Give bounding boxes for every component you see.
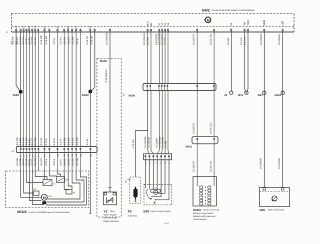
strip x1 pin at 49.4	[49, 148, 51, 153]
strip x1 pin at 23.6	[23, 148, 25, 153]
svg-text:0.75 SW: 0.75 SW	[132, 139, 135, 149]
module pin (right group) #5	[247, 29, 248, 32]
module pin (right group) #4	[244, 29, 245, 32]
wire strip x1 pin 9 into actuator	[48, 153, 50, 172]
svg-text:15R: 15R	[282, 21, 285, 26]
module pin 28 (left group)	[38, 29, 39, 32]
svg-text:0.5 VI: 0.5 VI	[60, 139, 63, 146]
module pin 30 (left group)	[49, 29, 50, 32]
module pin 38 (left group)	[94, 29, 95, 32]
actuator M16/2 dashed box	[6, 171, 89, 208]
wire x=32.3 module to connector strip	[31, 32, 33, 147]
svg-text:0.5 SW: 0.5 SW	[76, 157, 79, 166]
module pin 29/1 (left group)	[44, 29, 45, 32]
svg-text:0.5 GE: 0.5 GE	[72, 137, 75, 145]
strip x1 pin at 68.2	[67, 148, 69, 153]
svg-text:Cruise Control/Idle Speed Cont: Cruise Control/Idle Speed Control Module	[212, 9, 255, 12]
strip2 pin at 161.1	[160, 155, 162, 160]
svg-text:Start: Start	[110, 210, 115, 213]
module pin 24 (left group)	[26, 29, 27, 32]
svg-text:0.5 SW/BL: 0.5 SW/BL	[278, 33, 281, 45]
wire X92/8 to strip2 pin7	[167, 91, 169, 151]
S16/3 pin rows	[200, 186, 203, 188]
module internal dashed separator	[12, 26, 295, 28]
connector X92/8 strip	[143, 84, 216, 91]
module pin 31/2 (left group)	[57, 29, 58, 32]
wire strip x1 pin 5 into actuator	[31, 153, 33, 172]
strip x1 pin at 20.7	[20, 148, 22, 153]
svg-text:0.5 GR: 0.5 GR	[40, 137, 43, 145]
solder joint Z64/1	[19, 90, 23, 94]
svg-text:31/2: 31/2	[56, 26, 59, 32]
module pin (mid group) #5	[162, 29, 163, 32]
solenoid valve Y2 box	[104, 192, 117, 205]
wire strip x1 pin 7 into actuator	[37, 153, 39, 172]
svg-text:0.5 BR/RT: 0.5 BR/RT	[193, 160, 196, 172]
svg-text:Cruise Control Switch: Cruise Control Switch	[150, 210, 172, 213]
switch S40 rotary symbol	[154, 190, 158, 194]
svg-text:S40: S40	[143, 209, 149, 213]
module pin 26 (left group)	[32, 29, 33, 32]
wire module to connector X92/8 at 151	[150, 32, 152, 84]
svg-text:0.5 GR/SW: 0.5 GR/SW	[159, 136, 162, 148]
X92/8 pin at 214	[213, 85, 215, 91]
wire x=44.5 module to connector strip	[44, 32, 46, 147]
svg-text:0.5 SW: 0.5 SW	[147, 36, 150, 45]
actuator switch s2	[34, 191, 40, 196]
terminal Z8	[263, 91, 266, 94]
fuse F3 element	[133, 189, 137, 198]
wire module to connector X92/8 at 162.2	[161, 32, 163, 84]
svg-text:Y2: Y2	[104, 209, 108, 213]
strip2 pin at 145.4	[145, 155, 147, 160]
strip x1 pin at 76.1	[75, 148, 77, 153]
wire X92/8 to strip2 pin4	[158, 91, 160, 151]
svg-text:(Right Exhaust): (Right Exhaust)	[104, 220, 119, 223]
module pin 35/1 (left group)	[75, 29, 76, 32]
wire strip x1 pin 8 into actuator	[44, 153, 46, 172]
Y2 solenoid symbol	[107, 197, 113, 203]
svg-text:S16/3: S16/3	[193, 208, 201, 212]
wire module to connector X59/1 (right)	[213, 32, 215, 136]
svg-text:TF/4: TF/4	[247, 20, 250, 26]
svg-text:0.5 GN: 0.5 GN	[68, 137, 71, 145]
svg-text:0.5 BR/RT: 0.5 BR/RT	[193, 33, 196, 45]
X92/8 pin at 147.2	[146, 85, 148, 91]
switch S40 bottom arrow	[154, 201, 156, 203]
strip x1 pin at 44.5	[44, 148, 46, 153]
wire: X92/8 to cruise switch rail (with F3 tee)	[136, 91, 148, 178]
svg-text:N30: N30	[260, 208, 266, 212]
wire module to connector X92/8 at 159.3	[158, 32, 160, 84]
svg-text:0.75 SW/GE: 0.75 SW/GE	[105, 69, 108, 83]
strip x1 pin at 29.4	[29, 148, 31, 153]
svg-text:Cruise Control/Idle Speed Cont: Cruise Control/Idle Speed Control Actuat…	[29, 211, 71, 214]
switch S40 box (dashed)	[144, 184, 172, 205]
wire continues to strip2	[147, 131, 149, 151]
module bottom edge / pin rail	[12, 31, 295, 33]
module pin 37/2 (left group)	[90, 29, 91, 32]
module pin (mid group) #7	[167, 29, 168, 32]
module pin 32 (left group)	[63, 29, 64, 32]
wire x=68.2 module to connector strip	[67, 32, 69, 147]
module N4/3 left boundary (dashed)	[11, 14, 13, 33]
svg-text:Z64/1: Z64/1	[13, 94, 20, 97]
svg-text:0.5 GR/RT: 0.5 GR/RT	[156, 137, 159, 149]
terminal Z4	[230, 91, 233, 94]
svg-text:0.5 WS: 0.5 WS	[34, 158, 37, 166]
wire x=23.6 module to connector strip	[23, 32, 25, 147]
strip x1 pin at 35.2	[34, 148, 36, 153]
module N4/3 right boundary (dashed)	[293, 14, 295, 33]
strip x1 pin at 32.3	[31, 148, 33, 153]
svg-text:0.5 SW/WS: 0.5 SW/WS	[144, 136, 147, 148]
svg-text:0.75 S: 0.75 S	[45, 158, 48, 165]
switch S40 body	[151, 189, 160, 192]
svg-text:X92/8: X92/8	[128, 94, 135, 97]
terminal Z64/3	[281, 91, 284, 94]
wire X92/8 to strip2 pin6	[164, 91, 166, 151]
svg-text:RPM Increase: RPM Increase	[104, 217, 119, 220]
svg-text:F3: F3	[128, 209, 132, 213]
svg-text:0.5 GE: 0.5 GE	[72, 158, 75, 166]
strip2 pin at 165	[164, 155, 166, 160]
connector X59/1	[192, 136, 218, 143]
wire module to connector X92/8 at 147.7	[147, 32, 149, 84]
X92/8 pin at 159	[158, 85, 160, 91]
svg-text:Z64/3: Z64/3	[275, 94, 282, 97]
strip x1 pin at 64.2	[63, 148, 65, 153]
svg-text:0.5 GR/GE: 0.5 GR/GE	[161, 137, 164, 149]
wire strip x1 pin 15 into actuator	[80, 153, 82, 172]
module pin (right group) #1	[197, 29, 198, 32]
wire: module to solenoid Y2	[109, 32, 111, 192]
module pin (right group) #7	[282, 29, 283, 32]
wire below fuse	[135, 200, 137, 202]
svg-text:0.75 BR: 0.75 BR	[45, 36, 48, 45]
fuse F3 terminal 30 arrow	[127, 179, 130, 181]
wires strip2 into switch S40	[144, 160, 146, 189]
svg-text:35/1: 35/1	[75, 26, 78, 32]
wire end tick	[89, 213, 91, 215]
wire x=64.2 module to connector strip	[63, 32, 65, 147]
svg-text:33/4: 33/4	[67, 26, 70, 32]
svg-text:21/4: 21/4	[15, 26, 18, 32]
module pin 25/2 (left group)	[29, 29, 30, 32]
svg-text:M: M	[207, 18, 210, 22]
svg-text:0.5 BL/GN: 0.5 BL/GN	[209, 161, 212, 172]
connector strip x1 of actuator	[16, 147, 97, 153]
X92/8 pin at 164.6	[164, 85, 166, 91]
X92/8 pin at 161.8	[161, 85, 163, 91]
module pin (mid group) #3	[150, 29, 151, 32]
svg-text:31: 31	[230, 22, 233, 25]
svg-text:Starter Lock-out/: Starter Lock-out/	[203, 209, 220, 212]
wire x=26.5 module to connector strip	[26, 32, 28, 147]
svg-text:W10: W10	[238, 94, 244, 97]
svg-text:0.75 RT: 0.75 RT	[86, 35, 89, 44]
actuator potentiometer r1	[43, 180, 52, 186]
actuator motor m1	[41, 194, 47, 200]
wire module to ground Z4	[230, 32, 232, 91]
wire x=57.5 module to connector strip	[57, 32, 59, 147]
module pin 27/3 (left group)	[35, 29, 36, 32]
strip2 pin at 149.3	[148, 155, 150, 160]
module pin (mid group) #1	[109, 29, 110, 32]
svg-text:Z8/1: Z8/1	[258, 94, 264, 97]
N30 internal dashed separator	[260, 191, 290, 193]
fuse F3 dashed box	[130, 177, 141, 204]
svg-text:0.5 SW/RT: 0.5 SW/RT	[260, 157, 263, 169]
wire strip x1 pin 6 into actuator	[34, 153, 36, 172]
S16/3 top pins	[196, 177, 198, 187]
terminal W10	[245, 91, 248, 94]
module internal symbol	[204, 17, 211, 23]
svg-text:0.5 SW/BL: 0.5 SW/BL	[278, 157, 281, 169]
cruise switch connector strip	[144, 154, 172, 160]
engine variant M119 dashed box	[97, 59, 121, 218]
module N4/3 top boundary (dashed)	[12, 13, 295, 15]
module pin 22 (left group)	[20, 29, 21, 32]
strip x1 pin at 26.5	[26, 148, 28, 153]
wire module through Z8 to N30 (left)	[263, 32, 265, 188]
Y2 pin tick	[108, 187, 112, 189]
svg-text:0.5 BL/GN: 0.5 BL/GN	[209, 123, 212, 134]
module pin 34 (left group)	[71, 29, 72, 32]
wire strip x1 pin 1 into actuator	[20, 153, 22, 172]
svg-text:0.75 S: 0.75 S	[45, 138, 48, 145]
wire strip x1 pin 4 into actuator	[28, 153, 30, 172]
wire strip x1 pin 12 into actuator	[67, 153, 69, 172]
switch S40 internal contacts	[151, 196, 161, 198]
actuator clutch x1	[66, 190, 72, 195]
svg-text:0.5 BL: 0.5 BL	[86, 138, 89, 146]
wire x=80.5 module to connector strip	[80, 32, 82, 147]
strip2 pin at 169	[168, 155, 170, 160]
module pin (mid group) #2	[147, 29, 148, 32]
svg-text:0.75 B: 0.75 B	[53, 138, 56, 145]
svg-text:0.5 VI: 0.5 VI	[53, 38, 56, 45]
svg-text:0.75 B: 0.75 B	[53, 158, 56, 165]
switch S40 actuation arc	[147, 189, 152, 200]
module pin (right group) #6	[264, 29, 265, 32]
svg-text:0.5 SW: 0.5 SW	[12, 36, 15, 45]
svg-text:0.5 SW/WS: 0.5 SW/WS	[106, 32, 109, 45]
svg-text:0.5 RS: 0.5 RS	[64, 137, 67, 145]
X92/8 pin at 197.2	[196, 85, 198, 91]
svg-text:0.5 GR: 0.5 GR	[164, 141, 167, 149]
wire x=76.1 module to connector strip	[75, 32, 77, 147]
svg-text:M119: M119	[100, 59, 107, 63]
strip x1 pin at 80.5	[80, 148, 82, 153]
svg-text:M16: M16	[147, 21, 150, 26]
X92/8 pin at 150.2	[149, 85, 151, 91]
svg-text:0.75 SW: 0.75 SW	[40, 35, 43, 45]
svg-text:0.5 BR: 0.5 BR	[227, 37, 230, 45]
strip x1 pin at 38.4	[38, 148, 40, 153]
switch S16/3 box	[193, 177, 217, 207]
wires module to terminal W10 (pair)	[245, 32, 246, 91]
svg-text:X59/1: X59/1	[186, 145, 193, 148]
wire: pin18 to solder joint Z64/2 (bend)	[90, 32, 95, 92]
svg-text:0.5 VI: 0.5 VI	[60, 159, 63, 166]
module pin (mid group) #6	[164, 29, 165, 32]
wire x=35.2 module to connector strip	[34, 32, 36, 147]
svg-text:Valve, Engine: Valve, Engine	[104, 213, 118, 216]
svg-text:58d2: 58d2	[263, 19, 266, 25]
svg-text:0.5 SW: 0.5 SW	[76, 137, 79, 146]
svg-text:0.5 BR/RT: 0.5 BR/RT	[193, 122, 196, 134]
svg-text:0.5 RS: 0.5 RS	[60, 37, 63, 45]
actuator switch s1	[57, 177, 65, 183]
strip x1 pin at 72.1	[71, 148, 73, 153]
wire strip x1 pin 3 into actuator	[26, 153, 28, 172]
svg-text:N4/3: N4/3	[202, 8, 210, 12]
svg-text:0.5 GN: 0.5 GN	[68, 158, 71, 166]
wire X92/8 to strip2 pin3	[150, 91, 152, 151]
module pin 33/4 (left group)	[68, 29, 69, 32]
module pin 21/4 (left group)	[15, 29, 16, 32]
N30 pin marks	[263, 188, 265, 191]
module pin 23/1 (left group)	[23, 29, 24, 32]
wire strip x1 pin 2 into actuator	[23, 153, 25, 172]
actuator motor base (black)	[42, 201, 46, 204]
svg-text:29/1: 29/1	[43, 26, 46, 32]
wire x=49.4 module to connector strip	[48, 32, 50, 147]
wire: pin17 through Z64/2 down to strip	[89, 32, 91, 147]
solder joint Z64/2	[88, 90, 92, 94]
X92/8 pin at 167.4	[167, 85, 169, 91]
wire strip x1 pin 13 into actuator	[71, 153, 73, 172]
strip2 pin at 157.2	[156, 155, 158, 160]
wire X59/1 to switch S16/3 (right)	[213, 144, 215, 177]
wire module through Z64/3 to N30 (right)	[282, 32, 284, 188]
svg-text:(Models with Automatic: (Models with Automatic	[193, 215, 216, 218]
wire x=72.1 module to connector strip	[71, 32, 73, 147]
svg-text:0.5 RS: 0.5 RS	[64, 158, 67, 166]
strip2 pin at 153.3	[152, 155, 154, 160]
svg-text:0.75 BR: 0.75 BR	[90, 36, 93, 45]
actuator internal wiring	[21, 171, 42, 197]
wire strip x1 pin 10 into actuator	[57, 153, 59, 172]
svg-text:0.5 WS: 0.5 WS	[34, 137, 37, 145]
strip x1 pin at 57.5	[57, 148, 59, 153]
svg-text:M16/2: M16/2	[17, 210, 27, 214]
wire x=29.4 module to connector strip	[28, 32, 30, 147]
svg-text:0.5 BL/GN: 0.5 BL/GN	[210, 34, 213, 45]
wire strip x1 pin16 passing actuator down	[89, 153, 91, 214]
wire module to connector X92/8 at 165.1	[164, 32, 166, 84]
module pin (right group) #2	[213, 29, 214, 32]
wire: pin2 through Z64/1 down to connector strip	[20, 32, 22, 147]
svg-text:Backup Lamp Switch: Backup Lamp Switch	[193, 212, 214, 215]
fan to strip2 pin2	[148, 151, 150, 154]
wire x=38.4 module to connector strip	[37, 32, 39, 147]
svg-text:37/2: 37/2	[89, 26, 92, 32]
wire X92/8 to strip2 pin5	[161, 91, 163, 151]
svg-text:0.5 BL: 0.5 BL	[76, 37, 79, 45]
svg-text:Fuse Box: Fuse Box	[128, 214, 138, 217]
svg-text:0.5 SW/GE: 0.5 SW/GE	[147, 136, 150, 148]
svg-text:0.5 SW/RT: 0.5 SW/RT	[260, 33, 263, 45]
module pin 36 (left group)	[80, 29, 81, 32]
page artifact dash	[164, 222, 169, 225]
module pin (right group) #3	[231, 29, 232, 32]
svg-text:Transmission): Transmission)	[193, 218, 207, 221]
wire strip x1 pin 14 into actuator	[75, 153, 77, 172]
svg-text:ABS Control Unit: ABS Control Unit	[268, 209, 285, 212]
wire module to connector X92/8 at 168	[167, 32, 169, 84]
wire X59/1 to switch S16/3 (left)	[196, 144, 198, 177]
wire: pin1 to solder joint Z64/1 (bend)	[16, 32, 21, 92]
module pin (mid group) #4	[159, 29, 160, 32]
N30 internal symbol	[272, 196, 277, 201]
wire strip x1 pin 11 into actuator	[63, 153, 65, 172]
svg-text:0.5 GR: 0.5 GR	[40, 158, 43, 166]
svg-text:M: M	[43, 196, 46, 200]
svg-text:Z64/2: Z64/2	[82, 94, 89, 97]
Y2 pin squares	[104, 193, 106, 195]
strip x1 pin at 90.3	[89, 148, 91, 153]
wire module to connector X59/1 (left)	[196, 32, 198, 136]
